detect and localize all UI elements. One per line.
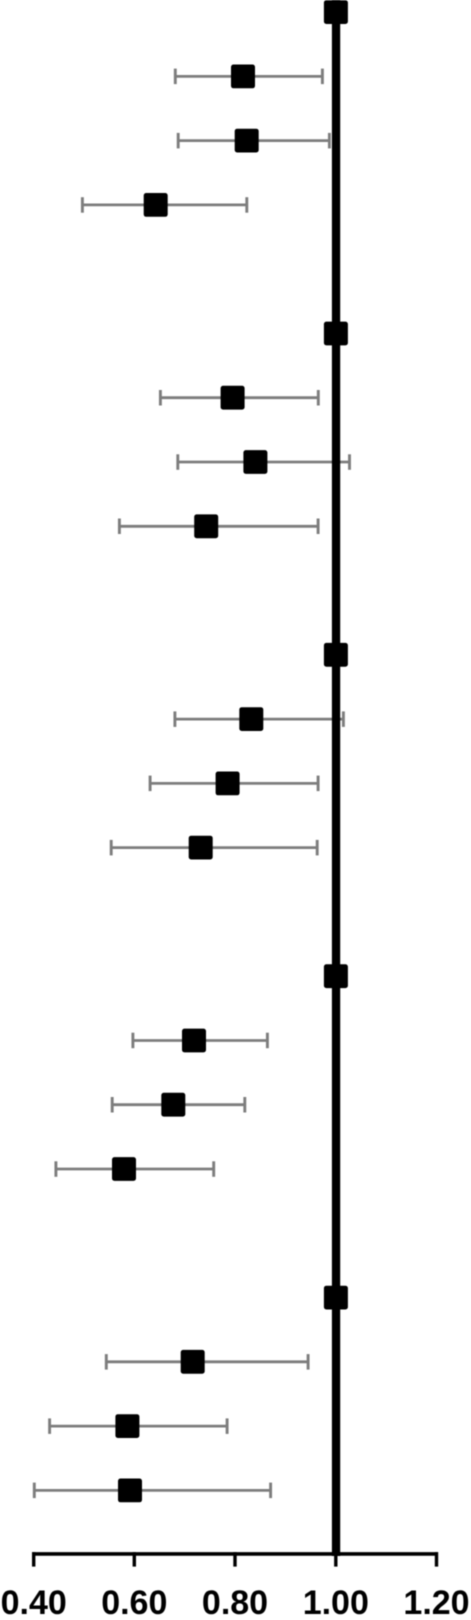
reference line at 1.00 bbox=[332, 0, 340, 1556]
tick 0.80 bbox=[233, 1552, 236, 1567]
tick 0.60 bbox=[133, 1552, 136, 1567]
error bar row 19 bbox=[50, 1418, 228, 1434]
marker row 10 bbox=[239, 707, 263, 731]
error bar row 18 bbox=[106, 1354, 308, 1370]
marker row 20 bbox=[118, 1479, 142, 1503]
marker row 3 bbox=[235, 129, 259, 153]
error bar row 16 bbox=[56, 1161, 214, 1177]
error bar row 12 bbox=[111, 840, 317, 856]
error bar row 20 bbox=[34, 1483, 270, 1499]
error bar row 2 bbox=[175, 69, 322, 85]
marker row 5 bbox=[324, 322, 348, 346]
error bar row 15 bbox=[112, 1097, 245, 1113]
marker row 11 bbox=[216, 772, 240, 796]
svg-text:1.00: 1.00 bbox=[303, 1584, 369, 1615]
tick 1.20 bbox=[435, 1552, 438, 1567]
x-axis line bbox=[32, 1552, 438, 1556]
error bar row 14 bbox=[133, 1033, 268, 1049]
error bar row 10 bbox=[175, 711, 344, 727]
marker row 4 bbox=[144, 193, 168, 217]
error bar row 6 bbox=[160, 390, 318, 406]
marker row 13 bbox=[324, 964, 348, 988]
marker row 14 bbox=[182, 1029, 206, 1053]
error bar row 4 bbox=[82, 197, 246, 213]
marker row 12 bbox=[189, 836, 213, 860]
marker row 2 bbox=[231, 65, 255, 89]
error bar row 11 bbox=[150, 776, 318, 792]
marker row 19 bbox=[115, 1414, 139, 1438]
svg-text:1.20: 1.20 bbox=[403, 1584, 469, 1615]
svg-text:0.60: 0.60 bbox=[101, 1584, 167, 1615]
marker row 9 bbox=[324, 643, 348, 667]
marker row 18 bbox=[181, 1350, 205, 1374]
marker row 6 bbox=[221, 386, 245, 410]
svg-text:0.80: 0.80 bbox=[202, 1584, 268, 1615]
marker row 17 bbox=[324, 1286, 348, 1310]
svg-text:0.40: 0.40 bbox=[1, 1584, 67, 1615]
error bar row 8 bbox=[119, 519, 318, 535]
marker row 1 bbox=[324, 0, 348, 24]
marker row 8 bbox=[194, 514, 218, 538]
marker row 7 bbox=[243, 450, 267, 474]
tick 0.40 bbox=[32, 1552, 35, 1567]
error bar row 3 bbox=[178, 133, 329, 149]
marker row 16 bbox=[112, 1157, 136, 1181]
marker row 15 bbox=[161, 1093, 185, 1117]
tick 1.00 bbox=[334, 1552, 337, 1567]
error bar row 7 bbox=[178, 454, 350, 470]
